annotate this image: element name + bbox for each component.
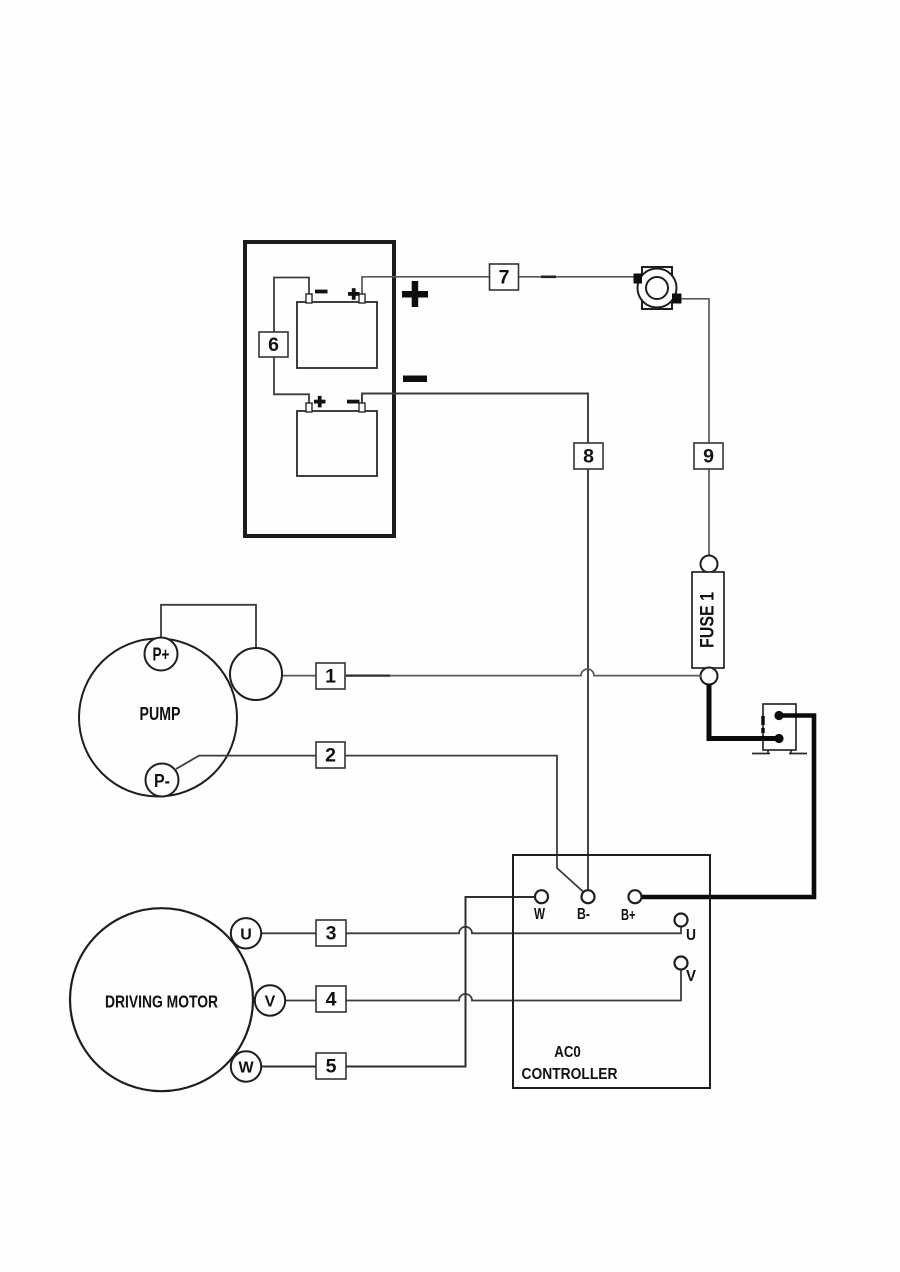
pump motor [79,639,237,797]
svg-text:P-: P- [154,771,170,791]
svg-text:W: W [534,906,545,923]
wire 7 net (battery1 pos to key switch) [362,277,634,296]
svg-text:6: 6 [268,334,279,356]
svg-text:U: U [240,927,252,944]
svg-text:V: V [265,994,276,1011]
motor terminal W [231,1051,261,1081]
pump terminal P+ [145,638,178,671]
wire 1 net (pump aux to fuse bottom, hop over wire 8) [282,669,701,676]
controller name text [522,1044,619,1083]
wire 9 net (key switch to fuse) [681,299,709,556]
wire 3 net (motor U to controller U, hop over w5 vertical) [261,927,681,933]
controller terminal B+ [621,890,642,924]
label 9 [694,443,723,469]
svg-text:8: 8 [583,446,594,468]
svg-text:B-: B- [577,906,590,923]
controller terminal B- [577,890,595,923]
wire 8 net (battery2 neg to controller B-) [362,394,588,890]
wire pump P+ loop [161,605,256,649]
svg-text:U: U [686,927,696,944]
label 3 [316,920,346,946]
battery B1 minus sign [315,290,328,294]
svg-text:9: 9 [703,446,714,468]
label 8 [574,443,603,469]
label 2 [316,742,345,768]
relay K1 [752,704,807,754]
thick wire relay to controller B+ [641,716,814,898]
battery B2 plus sign [314,396,326,408]
svg-text:P+: P+ [153,645,170,665]
controller box [513,855,710,1088]
fuse F1 [692,556,724,685]
svg-text:FUSE 1: FUSE 1 [698,592,719,648]
relay contact dots [774,711,783,743]
wire 4 net (motor V to controller V, hop over w5 vertical) [285,970,681,1001]
svg-text:7: 7 [499,267,510,289]
battery B2 minus sign [347,400,360,404]
svg-text:1: 1 [325,666,336,688]
label 4 [316,986,346,1012]
battery B1 plus sign [348,288,360,300]
svg-text:DRIVING MOTOR: DRIVING MOTOR [105,991,218,1011]
pack minus symbol [403,376,427,383]
svg-text:PUMP: PUMP [140,703,181,724]
svg-text:2: 2 [325,745,336,767]
label 5 [316,1053,346,1079]
pump aux circle [230,648,282,700]
svg-text:V: V [686,968,697,985]
controller terminal V [675,957,697,986]
pump terminal P- [146,764,179,797]
wire 6 loop (battery1 neg to battery2 pos) [274,278,309,405]
wire 2 net (pump P- to controller B-) [176,756,584,893]
battery B1 [297,294,377,368]
battery B2 [297,403,377,476]
svg-text:B+: B+ [621,907,636,924]
controller terminal W [534,890,548,923]
svg-text:CONTROLLER: CONTROLLER [522,1066,619,1083]
svg-text:4: 4 [326,989,337,1011]
svg-text:W: W [238,1060,254,1077]
battery box [245,242,394,536]
controller terminal U [675,914,697,945]
thick wire fuse to relay [709,684,776,739]
svg-text:AC0: AC0 [554,1044,581,1061]
svg-text:5: 5 [326,1056,337,1078]
motor terminal U [231,918,261,948]
pack plus symbol [402,281,428,307]
motor terminal V [255,985,285,1015]
driving motor [70,908,253,1091]
wire 5 net (motor W to controller W) [261,897,535,1067]
label 7 [490,264,519,290]
svg-text:3: 3 [326,923,337,945]
label 6 [259,332,288,357]
label 1 [316,663,345,689]
key switch SW [634,267,682,309]
